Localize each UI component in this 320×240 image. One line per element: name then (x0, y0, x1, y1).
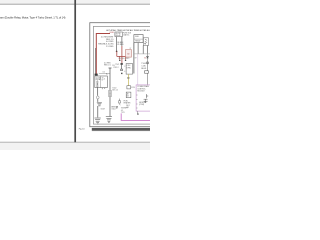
svg-text:87: 87 (102, 80, 104, 82)
svg-text:C113: C113 (127, 65, 131, 67)
svg-text:10A 87a: 10A 87a (123, 33, 129, 36)
svg-text:30: 30 (102, 77, 104, 79)
wire relay output down (97, 88, 99, 96)
connector strip C (109, 91, 112, 97)
relay J52 internal divider (99, 76, 101, 88)
wire to ground right branch (109, 68, 111, 91)
PCM pin ticks (136, 95, 138, 108)
wire below connector (97, 99, 99, 102)
node junction dot (116, 51, 118, 53)
connector box right (145, 71, 149, 73)
relay K2 labels (135, 36, 141, 42)
wire red to connector C119 (121, 37, 123, 46)
svg-text:S310: S310 (109, 32, 113, 34)
top margin strip (0, 0, 150, 4)
relay K3 contact marks (145, 39, 148, 44)
wire K2 pin down long (133, 43, 135, 74)
svg-text:6: 6 (104, 79, 105, 81)
svg-text:C119 2: C119 2 (113, 67, 118, 69)
svg-text:85 RED: 85 RED (117, 44, 124, 46)
connector C119 terminal (121, 63, 123, 65)
svg-text:30: 30 (144, 58, 146, 60)
svg-text:T1f/1: T1f/1 (115, 64, 119, 66)
schematic inner frame (93, 26, 152, 124)
relay box K1 labels (116, 33, 122, 37)
svg-text:N6 2: N6 2 (126, 105, 129, 107)
wire K1 coil down (116, 37, 118, 51)
relay box K2 (134, 35, 143, 43)
wire red battery feed (96, 34, 110, 75)
svg-text:C120: C120 (131, 87, 135, 89)
wire right rail (147, 54, 149, 71)
heater label block lower (126, 105, 130, 109)
wire K3 pin down 1 (142, 46, 144, 54)
terminal marks below C119 (121, 69, 123, 71)
svg-text:G107: G107 (101, 109, 105, 111)
wire yellow fuel heater (127, 74, 129, 86)
relay box K1 upper (115, 32, 123, 37)
wire black to junction (94, 48, 96, 74)
connector C113 labels (127, 65, 132, 69)
fuel heater labels (124, 101, 131, 105)
svg-text:C6: C6 (102, 72, 104, 74)
svg-text:G114: G114 (111, 108, 115, 110)
relay K2 divider (134, 38, 143, 40)
relay J52 labels (96, 77, 102, 81)
terminal bar top (109, 67, 112, 69)
PCM labels lower (139, 102, 147, 106)
svg-text:87: 87 (130, 48, 132, 50)
wire red coil feed (116, 51, 118, 56)
page separator (74, 0, 76, 142)
svg-text:GLOW: GLOW (116, 33, 121, 35)
wire gauge label row (104, 62, 115, 67)
right text block C135 (141, 63, 146, 70)
wire label block left of magenta (121, 108, 128, 114)
svg-text:HEATER: HEATER (124, 102, 131, 105)
wire red stub 2 (125, 56, 127, 59)
svg-text:B+: B+ (106, 74, 108, 76)
svg-text:Fig. 14:: Fig. 14: (79, 128, 85, 130)
wire red bus horizontal (117, 55, 126, 57)
PCM internal marks (144, 94, 149, 103)
svg-text:VIO/WHT: VIO/WHT (121, 108, 128, 110)
junction box labels (127, 92, 129, 97)
ground G107 (95, 118, 101, 124)
wire violet to PCM (137, 54, 139, 85)
PCM labels upper (137, 85, 149, 93)
svg-text:87: 87 (135, 58, 137, 60)
svg-text:4: 4 (124, 71, 125, 73)
svg-text:B4: B4 (127, 96, 129, 98)
schematic outer frame (90, 23, 152, 127)
wire magenta to PCM row (121, 113, 150, 120)
svg-text:BLK/4: BLK/4 (141, 68, 146, 70)
junction box small (126, 92, 131, 98)
wire below C119 (121, 65, 123, 69)
svg-text:FUEL: FUEL (135, 36, 139, 38)
wire strip to ground (109, 97, 111, 117)
connector C120 box (127, 86, 131, 89)
caption title band (92, 128, 150, 131)
fuel heater component (119, 99, 121, 101)
bottom margin strip (0, 143, 150, 150)
svg-text:BLK 1.5: BLK 1.5 (112, 90, 118, 92)
wire label cluster left (112, 88, 118, 92)
svg-text:2.5 RED: 2.5 RED (106, 46, 114, 48)
stub terminal marks (119, 60, 120, 61)
splice marks near G114 label (116, 106, 118, 108)
wire red stub 1 (119, 56, 121, 59)
page top edge (0, 3, 150, 5)
page bottom edge (0, 141, 150, 143)
splice S splice stack (97, 102, 102, 106)
relay box K3 (143, 38, 148, 46)
ground G114 label (111, 106, 117, 110)
wire splice to ground (97, 106, 99, 117)
svg-text:RED 2.5: RED 2.5 (104, 65, 111, 67)
bus gray horizontal (134, 53, 150, 55)
pin labels 85 86 (117, 42, 124, 46)
connector C inline (97, 96, 100, 99)
wire right rail lower (147, 73, 149, 85)
relay J52 pin labels (102, 77, 106, 81)
svg-text:iagram (Double Relay, Motor, T: iagram (Double Relay, Motor, Type 4 Turb… (0, 16, 65, 20)
wire label block left (98, 36, 114, 47)
diode D1 (147, 56, 149, 58)
PCM module box (magenta) (136, 85, 152, 111)
fuse box S39 (pink) (126, 50, 132, 58)
svg-text:T4k/2: T4k/2 (112, 88, 116, 90)
connector C113 box (126, 64, 133, 75)
relay J52 pin stubs (102, 88, 105, 90)
terminal marks right rail (147, 62, 149, 64)
svg-text:MODULE: MODULE (137, 91, 145, 93)
wire K3 pin down 2 (146, 46, 148, 54)
page background (0, 0, 150, 150)
ground G114 (106, 117, 112, 123)
wire stub below PCM (137, 111, 139, 114)
node junction C (95, 74, 98, 76)
svg-text:0.5: 0.5 (121, 110, 123, 112)
relay J52 coil winding (97, 81, 98, 88)
tick on yellow wire (128, 77, 130, 78)
wire stub to relay (99, 72, 110, 74)
svg-text:30: 30 (127, 54, 129, 56)
svg-text:(PCM): (PCM) (139, 104, 144, 106)
svg-text:2: 2 (124, 66, 125, 68)
wire K2 right pin down (137, 43, 139, 54)
relay J52 glow plug relay box (95, 76, 108, 88)
text right of K1 (123, 33, 131, 37)
